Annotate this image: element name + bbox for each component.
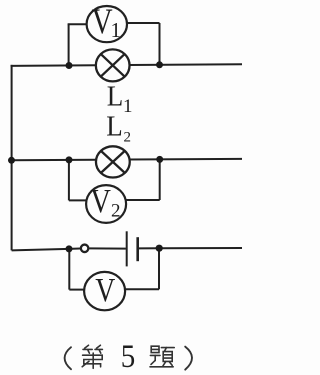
wire V2 left arm bbox=[69, 199, 87, 201]
svg-text:2: 2 bbox=[124, 130, 132, 146]
wire V2 left stem bbox=[68, 160, 70, 201]
junction node rail3 right bbox=[156, 245, 163, 252]
wire V1 left stem bbox=[68, 24, 70, 66]
lamp L1 circle bbox=[96, 49, 130, 81]
svg-text:V: V bbox=[92, 1, 113, 41]
junction node rail3 left bbox=[66, 245, 73, 252]
junction node rail1 right bbox=[156, 61, 163, 68]
battery short plate bbox=[136, 237, 139, 261]
lamp L2 cross bbox=[101, 151, 125, 173]
voltmeter V2 circle bbox=[86, 185, 126, 223]
wire V2 right stem bbox=[159, 160, 161, 200]
wire rail3 mid segment bbox=[89, 247, 126, 249]
wire rail1 left segment bbox=[11, 64, 96, 67]
svg-text:1: 1 bbox=[123, 96, 133, 117]
caption char di (第) bbox=[82, 345, 102, 368]
svg-text:2: 2 bbox=[111, 201, 121, 222]
wire left rail bbox=[11, 65, 13, 251]
wire V right stem bbox=[158, 248, 160, 289]
wire rail3 left segment bbox=[12, 249, 81, 251]
wire V1 left arm bbox=[68, 23, 87, 25]
wire V1 right arm bbox=[127, 22, 160, 24]
wire V1 right stem bbox=[159, 23, 161, 66]
lamp L1 cross bbox=[101, 54, 125, 77]
caption (第 5 题) bbox=[65, 339, 192, 375]
junction node rail2 at left rail bbox=[8, 157, 15, 164]
svg-text:V: V bbox=[95, 272, 115, 309]
wire V right arm bbox=[125, 288, 159, 290]
svg-text:L: L bbox=[106, 110, 123, 142]
wire V left arm bbox=[69, 289, 85, 291]
svg-text:V: V bbox=[90, 183, 111, 220]
wire rail2 left segment bbox=[11, 159, 97, 162]
voltmeter V1 circle bbox=[87, 6, 127, 42]
junction node rail1 left bbox=[66, 62, 73, 69]
lamp L2 circle bbox=[96, 146, 130, 177]
wire rail2 right segment bbox=[129, 158, 242, 161]
battery long plate bbox=[126, 231, 128, 266]
junction node rail2 mid bbox=[66, 156, 73, 163]
wire V2 right arm bbox=[126, 199, 160, 201]
caption open paren bbox=[65, 347, 71, 369]
svg-text:L: L bbox=[107, 80, 124, 112]
wire rail1 right segment bbox=[130, 63, 243, 66]
caption char ti (题) bbox=[150, 346, 174, 367]
caption close paren bbox=[185, 347, 192, 370]
svg-text:5: 5 bbox=[121, 339, 136, 375]
switch S bbox=[81, 245, 89, 253]
svg-text:1: 1 bbox=[111, 18, 122, 42]
junction node rail2 right bbox=[156, 156, 163, 163]
wire V left stem bbox=[68, 249, 70, 290]
voltmeter V circle bbox=[84, 272, 125, 310]
wire rail3 right segment bbox=[139, 247, 242, 249]
